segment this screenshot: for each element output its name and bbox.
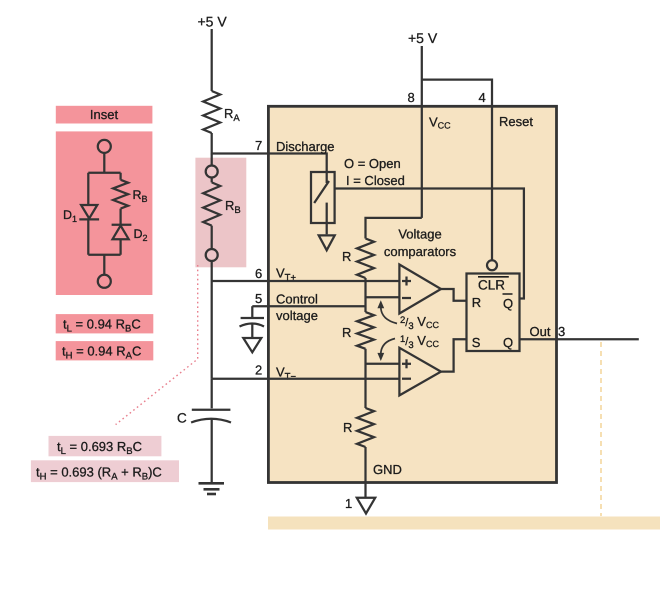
wire pin 7 (discharge) [212, 154, 327, 184]
svg-text:R: R [472, 295, 481, 310]
svg-text:2: 2 [255, 363, 262, 378]
ground arrow pin 1 [357, 498, 375, 514]
flip-flop (RS latch) [467, 274, 520, 352]
svg-text:6: 6 [255, 266, 262, 281]
formula tL = 0.94 RBC [56, 314, 154, 334]
wire inset top [88, 153, 120, 205]
callout dotted line [116, 265, 198, 425]
wire comparator upper output to R input [441, 289, 467, 301]
terminal circle bottom (inset) [98, 275, 111, 288]
label CLR (overlined) [478, 277, 509, 293]
ground symbol [199, 483, 225, 494]
terminal circle bottom of RB [206, 249, 218, 261]
svg-text:GND: GND [373, 462, 402, 477]
wire pin 2 VT- to comparator - input [212, 378, 400, 380]
resistor RB (inset) [113, 180, 128, 209]
capacitor C [191, 410, 231, 483]
wire RB circle to node 6 [211, 261, 213, 281]
arrow to 1/3 Vcc node [377, 339, 395, 362]
wire node 6 to node 2 [211, 281, 213, 379]
svg-text:Out: Out [530, 324, 551, 339]
diode D1 [79, 205, 99, 219]
svg-text:I = Closed: I = Closed [346, 173, 405, 188]
svg-text:8: 8 [408, 90, 415, 105]
formula tH = 0.693 (RA + RB)C [31, 460, 179, 482]
wire pin 8 to divider chain [366, 218, 422, 239]
terminal circle top of RB [206, 166, 218, 178]
svg-text:Inset: Inset [90, 107, 119, 122]
wire comparator lower output to S input [441, 339, 467, 371]
capacitor at pin 5 [240, 306, 265, 338]
wire 2/3 node to comparator - input [366, 296, 400, 298]
wire circle to RB [211, 178, 213, 183]
svg-text:7: 7 [255, 138, 262, 153]
highlight box around RB [195, 158, 246, 268]
wire R bottom to GND pin 1 [364, 447, 366, 498]
wire pin 5 control voltage [252, 305, 365, 307]
wire divider node 1/3 [364, 349, 366, 408]
resistor R (top) [357, 239, 374, 279]
svg-text:Voltage: Voltage [398, 227, 441, 242]
svg-text:+5 V: +5 V [408, 30, 438, 46]
clear bubble [487, 260, 497, 270]
resistor RB [203, 182, 220, 225]
label Q-bar output [503, 294, 514, 311]
formula tL = 0.693 RBC [49, 436, 162, 457]
ground arrow at pin 5 capacitor [243, 338, 261, 352]
wire inset bottom [88, 209, 120, 275]
op-amp comparator (upper) [399, 265, 441, 314]
svg-text:3: 3 [558, 324, 565, 339]
svg-text:+5 V: +5 V [198, 14, 228, 30]
svg-text:voltage: voltage [276, 308, 318, 323]
wire +5V to pin 8 Vcc [421, 46, 423, 218]
wire node 7 to RB circle [211, 154, 213, 166]
svg-text:4: 4 [479, 90, 486, 105]
svg-text:S: S [472, 335, 481, 350]
arrow to 2/3 Vcc node [377, 300, 397, 323]
inset title bar [56, 106, 153, 124]
diode D2 [112, 225, 132, 240]
ground arrow at discharge switch [319, 235, 335, 250]
resistor R (middle) [357, 312, 374, 349]
svg-text:CLR: CLR [478, 278, 505, 293]
svg-text:R: R [342, 325, 351, 340]
svg-text:C: C [177, 411, 187, 426]
svg-text:Reset: Reset [499, 114, 533, 129]
inset box [56, 131, 153, 295]
svg-text:Discharge: Discharge [276, 139, 335, 154]
wire +5V to RA [211, 29, 213, 91]
svg-text:comparators: comparators [384, 244, 457, 259]
terminal circle top (inset) [98, 140, 111, 153]
wire discharge switch to Q-bar [335, 189, 524, 299]
wire node 2 to capacitor C [211, 379, 213, 409]
svg-text:Q: Q [503, 335, 513, 350]
op-amp comparator (lower) [399, 348, 441, 396]
wire pin 6 VT+ to comparator + input [212, 280, 400, 282]
resistor RA [203, 91, 220, 133]
svg-text:1: 1 [345, 496, 352, 511]
wire RB to circle [211, 226, 213, 249]
svg-text:Control: Control [276, 292, 318, 307]
wire RA to node 7 [211, 133, 213, 155]
wire 1/3 node to comparator + input [366, 363, 400, 365]
wire branch to pin 4 reset [422, 80, 492, 261]
formula tH = 0.94 RAC [56, 341, 154, 361]
svg-text:5: 5 [255, 291, 262, 306]
discharge switch Q (transistor symbol) [311, 172, 335, 234]
svg-text:R: R [342, 249, 351, 264]
svg-text:O = Open: O = Open [344, 156, 401, 171]
svg-text:Q: Q [503, 296, 513, 311]
wire divider node 2/3 [364, 278, 366, 312]
resistor R (bottom) [357, 408, 374, 447]
wire Q output to Out pin 3 [520, 338, 639, 340]
IC body U1 (555 timer) [268, 106, 556, 482]
svg-text:R: R [343, 420, 352, 435]
